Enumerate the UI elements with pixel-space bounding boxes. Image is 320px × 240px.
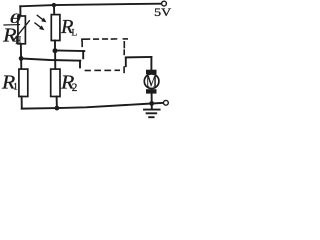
motor brush top — [146, 70, 157, 75]
light arrow 2 into RL — [35, 23, 41, 28]
wire: rail1 top segment (to RH top) — [19, 6, 21, 16]
wire: top rail from left corner to 5V terminal — [20, 4, 161, 7]
wire: upper tap from rail2 node into control box — [55, 50, 84, 53]
svg-text:M: M — [146, 73, 157, 91]
ground stem — [151, 103, 153, 109]
dashed control box: bottom edge — [85, 69, 119, 71]
svg-text:2: 2 — [72, 82, 78, 94]
wire: motor bottom lead — [151, 93, 153, 103]
photoresistor RL body — [51, 15, 60, 41]
wire: lower tap hook down — [79, 61, 81, 68]
wire: motor feed stub inside box — [125, 57, 127, 66]
dashed control box: right edge — [123, 42, 125, 73]
wire: rail2 from R2 bottom to bottom rail — [56, 97, 58, 109]
wire: rail1 from RH bottom to node — [20, 44, 22, 59]
resistor R2 body — [51, 69, 60, 96]
wire: rail1 from node to R1 top — [20, 58, 22, 69]
node dot motor/bottom rail — [149, 101, 154, 106]
resistor RH (thermistor) body — [18, 16, 26, 44]
terminal right (open circle) — [164, 100, 169, 105]
node dot rail2/R2 junction — [53, 48, 58, 53]
dashed control box: left edge — [81, 42, 83, 47]
thermistor diagonal stroke through RH — [14, 21, 30, 41]
wire: rail1 bottom segment to bottom rail — [21, 97, 23, 109]
motor M circle — [144, 74, 159, 89]
dashed control box: top edge — [82, 39, 127, 41]
light arrow 1 into RL — [37, 15, 43, 19]
ground bar 2 — [147, 112, 157, 114]
wire: rail2 from node down to R2 top — [54, 51, 56, 69]
svg-text:5V: 5V — [154, 7, 172, 19]
wire: motor feed drop to brush — [150, 57, 152, 70]
node dot bottom rail / rail2 — [55, 106, 60, 111]
wire: rail2 top segment (top rail to RL) — [53, 5, 55, 15]
terminal 5V (open circle) — [162, 1, 167, 6]
node dot on top rail (junction of RL branch) — [52, 3, 56, 7]
svg-text:L: L — [72, 27, 78, 37]
resistor R1 body — [19, 69, 28, 96]
svg-text:1: 1 — [13, 81, 17, 91]
wire: rail2 from RL bottom to node — [54, 41, 56, 51]
wire: upper tap hook down — [82, 51, 84, 58]
wire: lower tap from rail1 node into control box — [21, 59, 80, 61]
ground bar 3 — [149, 116, 153, 118]
wire: motor feed horizontal — [126, 56, 152, 58]
motor brush bottom — [146, 89, 157, 93]
wire: bottom rail — [22, 103, 164, 109]
ground bar 1 — [144, 109, 160, 111]
node dot rail1/R1 junction — [19, 56, 24, 61]
